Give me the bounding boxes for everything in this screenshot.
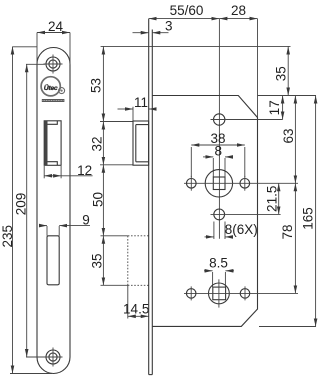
bottom follower U2 xyxy=(184,279,298,307)
small hole below follower xyxy=(211,209,281,220)
svg-text:35: 35 xyxy=(90,253,105,268)
svg-text:3: 3 xyxy=(165,19,173,34)
dim 78 xyxy=(280,183,296,293)
svg-text:8.5: 8.5 xyxy=(209,256,228,271)
deadbolt edge view dashed xyxy=(128,236,149,285)
wire top extension line across drawing xyxy=(13,46,38,48)
wire case right edge extension xyxy=(257,19,259,118)
latch cutout front view xyxy=(44,121,61,166)
dim 35 left xyxy=(90,236,128,285)
svg-text:12: 12 xyxy=(77,163,92,178)
svg-text:14.5: 14.5 xyxy=(123,301,149,316)
dim 14.5 xyxy=(123,285,149,318)
latch bolt edge view xyxy=(133,121,149,165)
dim 38 xyxy=(191,131,245,177)
dim 17 xyxy=(267,96,282,120)
svg-text:9: 9 xyxy=(82,213,90,228)
svg-text:235: 235 xyxy=(0,225,15,248)
svg-text:78: 78 xyxy=(280,224,295,239)
svg-text:11: 11 xyxy=(134,95,148,110)
dim 55/60 xyxy=(149,3,220,19)
dim 235 xyxy=(0,47,52,374)
dim 165 xyxy=(259,96,316,327)
svg-text:53: 53 xyxy=(88,78,103,93)
dim 24 xyxy=(37,19,70,65)
logo emblem xyxy=(41,77,65,102)
deadbolt cutout front view xyxy=(47,236,59,285)
dim 11 xyxy=(118,95,156,122)
faceplate edge view xyxy=(149,19,153,375)
svg-text:8: 8 xyxy=(214,144,222,159)
dim 209 xyxy=(14,64,45,357)
side hole left xyxy=(187,176,197,191)
dim 21.5 xyxy=(264,183,279,214)
follower U1 xyxy=(184,170,298,197)
svg-text:17: 17 xyxy=(267,100,282,115)
faceplate front view outline xyxy=(37,48,70,374)
lock case outline xyxy=(152,96,257,327)
bottom side hole left xyxy=(186,286,196,300)
svg-text:63: 63 xyxy=(281,128,296,143)
svg-text:209: 209 xyxy=(14,193,29,216)
dim 32 xyxy=(90,122,133,165)
hole top xyxy=(211,114,283,125)
svg-text:8(6X): 8(6X) xyxy=(225,222,258,237)
dim 8(6X) xyxy=(205,222,258,240)
dim 50 xyxy=(90,165,105,236)
svg-text:55/60: 55/60 xyxy=(170,3,204,18)
svg-text:28: 28 xyxy=(231,3,246,18)
svg-text:35: 35 xyxy=(274,66,289,81)
dim 63 xyxy=(281,96,296,184)
side hole right xyxy=(240,176,250,191)
screw hole top xyxy=(44,55,63,74)
dim 3 xyxy=(133,19,173,34)
svg-text:24: 24 xyxy=(48,19,64,34)
dim 35 right xyxy=(274,47,289,96)
dim 28 xyxy=(219,3,257,19)
dim 8 follower xyxy=(203,144,232,177)
wire case top extension xyxy=(258,95,317,97)
dim 9 xyxy=(40,213,91,236)
svg-text:50: 50 xyxy=(90,192,105,207)
dim 53 xyxy=(88,47,103,122)
node centerline xyxy=(218,19,220,239)
dim 8.5 xyxy=(204,256,234,287)
svg-text:165: 165 xyxy=(300,207,315,230)
screw hole bottom xyxy=(44,348,63,367)
bottom side hole right xyxy=(240,286,250,300)
svg-text:32: 32 xyxy=(90,136,105,151)
svg-text:21.5: 21.5 xyxy=(264,186,279,212)
dim 12 xyxy=(44,163,92,178)
